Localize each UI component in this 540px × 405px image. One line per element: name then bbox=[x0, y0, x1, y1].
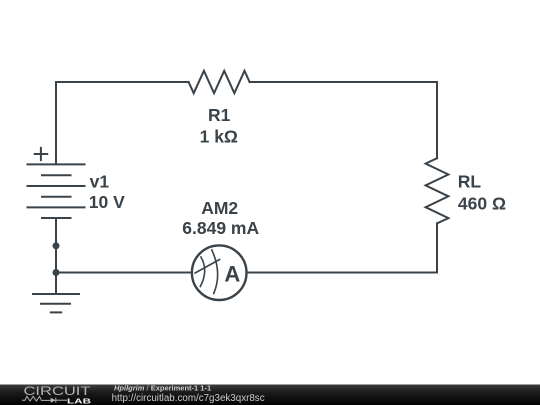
svg-text:AM2: AM2 bbox=[201, 198, 238, 218]
node junction dot (battery negative) bbox=[53, 242, 60, 249]
ammeter AM2 circle bbox=[192, 245, 247, 300]
wire right vertical (bottom) bbox=[436, 223, 438, 272]
wire bottom-left horizontal bbox=[56, 272, 192, 274]
resistor R1 bbox=[189, 71, 250, 93]
ground bbox=[33, 294, 79, 312]
svg-text:460 Ω: 460 Ω bbox=[458, 193, 506, 213]
logo diode triangle bbox=[51, 398, 56, 403]
svg-text:Hpilgrim / Experiment-1 1-1: Hpilgrim / Experiment-1 1-1 bbox=[114, 383, 211, 392]
wire left vertical (battery to ground) bbox=[55, 218, 57, 294]
svg-text:1 kΩ: 1 kΩ bbox=[200, 127, 238, 147]
svg-text:6.849 mA: 6.849 mA bbox=[182, 218, 259, 238]
wire top-right horizontal bbox=[250, 81, 437, 83]
battery v1 plates bbox=[28, 164, 85, 218]
svg-text:RL: RL bbox=[458, 172, 482, 192]
wire left vertical (top) bbox=[55, 82, 57, 164]
svg-text:LAB: LAB bbox=[67, 396, 92, 405]
battery plus sign bbox=[35, 148, 48, 160]
resistor RL bbox=[426, 158, 449, 223]
svg-text:10 V: 10 V bbox=[89, 192, 125, 212]
svg-text:A: A bbox=[224, 262, 240, 287]
ammeter gauge arcs and needle bbox=[195, 250, 219, 294]
logo circuit glyph: wire, resistor zigzag, diode bbox=[22, 396, 67, 402]
svg-text:v1: v1 bbox=[90, 172, 110, 192]
wire top-left horizontal bbox=[56, 81, 189, 83]
wire bottom-right horizontal bbox=[246, 272, 437, 274]
wire right vertical (top) bbox=[436, 82, 438, 158]
svg-text:R1: R1 bbox=[208, 105, 231, 125]
svg-text:http://circuitlab.com/c7g3ek3q: http://circuitlab.com/c7g3ek3qxr8sc bbox=[112, 393, 265, 404]
node junction dot (ground tee) bbox=[53, 269, 60, 276]
